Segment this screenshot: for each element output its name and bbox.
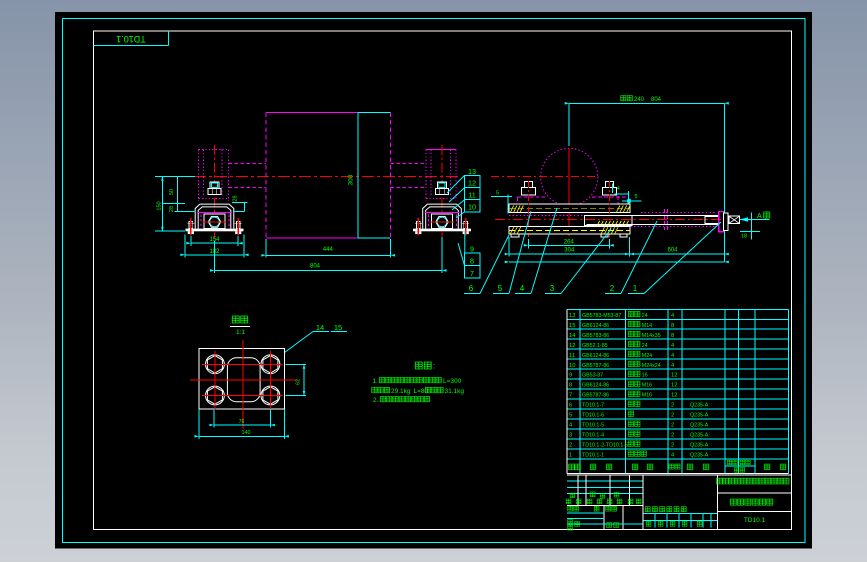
- dim 604 side view: [630, 253, 725, 255]
- pillow block left strap: [195, 204, 234, 229]
- svg-text:Q235-A: Q235-A: [690, 423, 709, 429]
- shaft hidden lines right: [391, 163, 427, 165]
- pillow block left bolt: [210, 182, 219, 188]
- svg-text:140: 140: [242, 430, 251, 436]
- company name: [717, 478, 723, 484]
- svg-text:TD10.1-7: TD10.1-7: [582, 403, 604, 409]
- svg-text:GB52.1-85: GB52.1-85: [582, 343, 608, 349]
- svg-text:TD10.1-5: TD10.1-5: [582, 423, 604, 429]
- pillow block left bore circle: [210, 217, 220, 227]
- revision row labels: [566, 499, 571, 504]
- middle lower grid: [643, 512, 718, 514]
- svg-text:11: 11: [468, 191, 475, 200]
- ladder leaders upper: [447, 175, 465, 193]
- svg-text:TD10.1: TD10.1: [744, 517, 766, 524]
- svg-text:3: 3: [569, 433, 572, 439]
- pillow block right base: [413, 229, 471, 232]
- dim 100 left: [161, 176, 163, 231]
- svg-text:TD10.1-6: TD10.1-6: [582, 413, 604, 419]
- svg-text:28: 28: [233, 195, 239, 201]
- svg-text:4: 4: [617, 186, 620, 192]
- svg-text:8: 8: [671, 323, 674, 329]
- svg-text:15: 15: [334, 323, 342, 332]
- svg-text:18: 18: [741, 234, 747, 240]
- svg-text:12: 12: [671, 393, 677, 399]
- svg-text:2: 2: [610, 284, 615, 293]
- svg-text:1: 1: [569, 452, 572, 458]
- dim 444 under cylinder: [265, 239, 267, 258]
- pillow block left base: [186, 229, 244, 232]
- bottom plate hatch left: [511, 227, 514, 234]
- svg-text:1: 1: [633, 284, 638, 293]
- svg-text:604: 604: [667, 248, 678, 254]
- rod end flange magenta: [719, 212, 724, 232]
- svg-text:5: 5: [498, 284, 503, 293]
- svg-text:8: 8: [671, 333, 674, 339]
- svg-text:10: 10: [468, 203, 476, 212]
- svg-text:15: 15: [569, 323, 575, 329]
- top plate hatch right: [617, 205, 620, 212]
- clamp bolt left side view: [524, 182, 532, 188]
- section hex bolts: [206, 355, 225, 374]
- pillow block right hidden bore: [428, 215, 430, 229]
- svg-text:GB5787-86: GB5787-86: [582, 393, 609, 399]
- svg-text:11: 11: [569, 353, 575, 359]
- pillow block right pin line: [425, 211, 460, 213]
- svg-text:5: 5: [635, 194, 638, 200]
- svg-text:9: 9: [569, 373, 572, 379]
- BOM header texts: [569, 464, 575, 470]
- outer cyan border frame: [63, 19, 806, 543]
- dim 182 under left bracket: [184, 235, 186, 258]
- svg-text:62: 62: [296, 379, 302, 385]
- bolt cap highlight right: [611, 184, 613, 194]
- pillow block left hidden bore: [200, 215, 202, 229]
- svg-text:Q235-A: Q235-A: [690, 403, 709, 409]
- inner block hatch: [596, 221, 600, 228]
- inner block side view: [585, 215, 633, 225]
- svg-text:8: 8: [569, 383, 572, 389]
- hidden vertical pair mid rod: [664, 209, 666, 230]
- bottom plate feet: [511, 234, 519, 237]
- hidden lines under plate: [509, 214, 660, 216]
- svg-text:12: 12: [569, 343, 575, 349]
- svg-text:804: 804: [651, 97, 662, 103]
- svg-text:76: 76: [239, 419, 245, 425]
- svg-text:6: 6: [469, 284, 474, 293]
- overall dim line side view: [509, 261, 724, 263]
- svg-text:TD10.1: TD10.1: [116, 34, 146, 44]
- inner white drawing frame: [94, 31, 792, 530]
- svg-text:14: 14: [316, 323, 324, 332]
- svg-text:GB5783-86: GB5783-86: [582, 333, 609, 339]
- signature labels: [568, 506, 573, 511]
- svg-text:GB6124-86: GB6124-86: [582, 323, 609, 329]
- bottom hatch near feet: [601, 227, 604, 234]
- svg-text:A: A: [757, 213, 762, 220]
- svg-text:L=300: L=300: [443, 378, 462, 385]
- svg-text:TD10.1-1: TD10.1-1: [582, 452, 604, 458]
- svg-text:1.: 1.: [373, 378, 379, 385]
- section center bore: [227, 358, 260, 402]
- svg-text:9: 9: [470, 245, 474, 254]
- signature grid: [603, 505, 605, 529]
- title block vertical separators: [642, 475, 644, 530]
- bottom plate side view: [509, 227, 630, 235]
- rod end washer: [724, 213, 728, 231]
- svg-text:2: 2: [671, 413, 674, 419]
- dim 154 under left bracket: [190, 236, 192, 246]
- pillow block right strap: [423, 204, 462, 229]
- svg-text:2: 2: [569, 443, 572, 449]
- svg-text:24: 24: [642, 343, 648, 349]
- piston rod: [587, 214, 719, 216]
- svg-text:4: 4: [520, 284, 525, 293]
- svg-text:M24x24: M24x24: [642, 363, 661, 369]
- svg-text:2: 2: [671, 443, 674, 449]
- svg-text:12: 12: [671, 383, 677, 389]
- cylinder body front view: [266, 112, 358, 114]
- dim 264 side view: [527, 239, 529, 249]
- hidden cylinder over bracket: [425, 150, 427, 202]
- svg-text:M16: M16: [642, 393, 652, 399]
- rod center line: [495, 219, 742, 221]
- svg-text:Q235-A: Q235-A: [690, 413, 709, 419]
- svg-text:300: 300: [348, 174, 355, 185]
- shaft hidden lines left: [229, 163, 266, 165]
- svg-text:7: 7: [569, 393, 572, 399]
- BOM header row: [567, 473, 789, 475]
- svg-text::: :: [433, 362, 435, 371]
- svg-text:2.: 2.: [373, 397, 379, 404]
- svg-text:28: 28: [169, 206, 175, 212]
- side view center lines: [568, 148, 570, 236]
- pillow block left pin line: [197, 211, 232, 213]
- svg-text:29.1kg: 29.1kg: [391, 388, 411, 395]
- note line 2: [372, 387, 377, 392]
- svg-text:GB53-87: GB53-87: [582, 373, 603, 379]
- svg-text:444: 444: [323, 247, 334, 253]
- svg-text:1:1: 1:1: [236, 329, 245, 336]
- pillow block right center line: [441, 145, 443, 239]
- svg-text:16: 16: [642, 373, 648, 379]
- rod end clevis with cross: [729, 216, 740, 223]
- svg-text:12: 12: [671, 373, 677, 379]
- svg-text:3: 3: [550, 284, 555, 293]
- dim 112 below section: [213, 409, 215, 427]
- svg-text:10: 10: [569, 363, 575, 369]
- svg-text:Q235-A: Q235-A: [690, 452, 709, 458]
- hidden circle side view: [541, 148, 598, 205]
- BOM table grid: [567, 308, 789, 310]
- pillow block right lug bolts: [417, 221, 421, 228]
- svg-text:7: 7: [470, 269, 474, 278]
- pillow block right bore circle: [437, 217, 447, 227]
- pillow block left center line: [214, 145, 216, 239]
- clamp hidden outline: [518, 196, 546, 198]
- pillow block right insert: [431, 214, 452, 228]
- pillow block left lug bolts: [189, 221, 193, 228]
- drawing title: [730, 499, 736, 505]
- svg-text:M14: M14: [642, 323, 652, 329]
- svg-text:304: 304: [564, 248, 575, 254]
- svg-text:13: 13: [569, 313, 575, 319]
- svg-text:GB6124-86: GB6124-86: [582, 353, 609, 359]
- svg-text:GB6124-86: GB6124-86: [582, 383, 609, 389]
- svg-text:GB5787-86: GB5787-86: [582, 363, 609, 369]
- ladder leaders lower: [464, 231, 466, 253]
- title block top line: [567, 474, 792, 476]
- A-view arrow: [740, 219, 770, 221]
- section center lines: [190, 379, 298, 381]
- svg-text:804: 804: [310, 264, 321, 270]
- svg-text:GB5783-M53-87: GB5783-M53-87: [582, 313, 621, 319]
- svg-text:240: 240: [634, 97, 645, 103]
- svg-text:Q235-A: Q235-A: [690, 443, 709, 449]
- svg-text:2: 2: [671, 403, 674, 409]
- dim 50 and 28 left: [177, 176, 179, 211]
- svg-text:M14x35: M14x35: [642, 333, 661, 339]
- svg-text:TD10.1-4: TD10.1-4: [582, 433, 604, 439]
- svg-text:5: 5: [496, 191, 499, 197]
- notes heading: [415, 362, 422, 369]
- hidden cylinder over bracket: [198, 150, 200, 202]
- front view center line: [194, 176, 458, 178]
- svg-text:6: 6: [569, 403, 572, 409]
- svg-text:12: 12: [468, 179, 476, 188]
- revision table: [567, 480, 643, 482]
- dim 304 side view: [508, 237, 510, 257]
- svg-text:2: 2: [671, 423, 674, 429]
- svg-text:2: 2: [671, 433, 674, 439]
- svg-text:5: 5: [569, 413, 572, 419]
- section label: [232, 316, 239, 323]
- title box top-left: [94, 45, 169, 47]
- pillow block left insert: [204, 214, 225, 228]
- svg-text:TD10.1-2-TD10.1-5: TD10.1-2-TD10.1-5: [582, 443, 628, 449]
- top plate hatch left: [511, 205, 514, 212]
- dim 62 right of section: [285, 363, 306, 365]
- svg-text:M24: M24: [642, 353, 652, 359]
- pillow block right bolt: [438, 182, 447, 188]
- svg-text:M16: M16: [642, 383, 652, 389]
- dim 804 overall front view: [214, 241, 216, 273]
- svg-text:14: 14: [569, 333, 576, 339]
- top plate side view: [509, 204, 630, 213]
- section plate outline: [199, 348, 284, 409]
- svg-text:13: 13: [468, 167, 476, 176]
- svg-text:150: 150: [156, 201, 162, 210]
- svg-text:264: 264: [564, 239, 575, 245]
- svg-text:24: 24: [642, 313, 648, 319]
- clamp bolt right side view: [605, 182, 613, 188]
- svg-text:8: 8: [470, 257, 474, 266]
- svg-text:Q235-A: Q235-A: [690, 433, 709, 439]
- cylinder right section cyan: [358, 112, 391, 114]
- svg-text:31.1kg: 31.1kg: [445, 388, 465, 395]
- svg-text:50: 50: [169, 189, 175, 195]
- dim 182 below section: [198, 409, 200, 439]
- stroke dimension top: [569, 102, 724, 104]
